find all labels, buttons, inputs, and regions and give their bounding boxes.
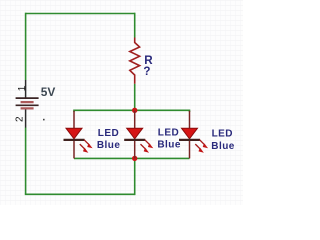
svg-text:1: 1 [17,85,28,91]
svg-text:?: ? [143,65,150,78]
svg-text:2: 2 [14,116,25,122]
svg-text:LED: LED [98,128,119,139]
svg-text:Blue: Blue [97,140,120,151]
svg-text:5V: 5V [41,85,56,99]
svg-text:Blue: Blue [157,140,180,151]
svg-text:Blue: Blue [211,141,234,152]
svg-text:LED: LED [212,129,233,140]
svg-text:LED: LED [158,128,179,139]
